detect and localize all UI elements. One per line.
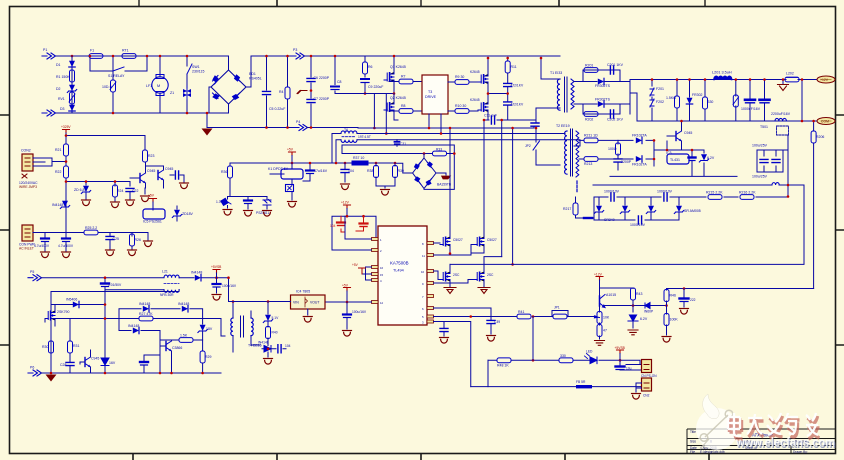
inductor L21 choke (105, 270, 179, 305)
diode D2 (67, 85, 76, 93)
capacitor C25 (106, 236, 119, 249)
capacitor C27 (213, 278, 237, 293)
node J8 (265, 55, 268, 58)
transformer T1 main (550, 71, 574, 112)
wire aux line (41, 277, 229, 279)
svg-text:P5: P5 (30, 270, 34, 274)
transformer T2 aux (556, 124, 579, 177)
zener ZD22 (165, 206, 194, 222)
svg-text:T1 EI33: T1 EI33 (550, 71, 562, 75)
node J11 (364, 92, 367, 95)
svg-text:100K: 100K (670, 318, 679, 322)
resistor R37 solid (352, 156, 368, 165)
+5VSB node cap (342, 284, 351, 304)
capacitor C213 series (611, 193, 614, 201)
svg-text:+5VSB: +5VSB (211, 265, 222, 269)
ground G19 (595, 341, 605, 346)
border zone tick top 4 (558, 0, 560, 6)
svg-text:472/1KV: 472/1KV (511, 103, 524, 107)
border zone tick top 1 (138, 0, 140, 6)
svg-text:L201 3.5uH: L201 3.5uH (712, 71, 732, 75)
resistor R11 (505, 58, 517, 83)
capacitor C35 (341, 163, 354, 182)
wire relay bypass (90, 56, 147, 71)
thermistor RT1 (122, 49, 136, 59)
grounds row2 (41, 252, 50, 258)
svg-text:10D-9: 10D-9 (102, 85, 112, 89)
diode D201 (598, 78, 604, 84)
capacitor C24 pol (58, 239, 74, 252)
svg-text:DRIVE: DRIVE (425, 95, 437, 99)
wire bottom row1 (488, 360, 641, 364)
capacitor C6 upper (307, 56, 330, 128)
wire bridge left leg (209, 87, 229, 113)
svg-text:R7: R7 (401, 75, 406, 79)
svg-text:R48 1K: R48 1K (497, 364, 509, 368)
ground G5 G6 G7 G8 (82, 200, 91, 206)
diode D22 (195, 275, 201, 281)
capacitor C22 (126, 188, 138, 199)
svg-text:C11 1uF: C11 1uF (484, 114, 497, 118)
svg-text:NFB 30R: NFB 30R (160, 293, 174, 297)
svg-text:C945: C945 (684, 131, 692, 135)
wire DC return rail (207, 127, 294, 129)
svg-text:+5V: +5V (342, 284, 349, 288)
capacitor C8 bus (331, 56, 342, 94)
transistor Q21 (130, 162, 155, 188)
resistor R42 jumper (552, 306, 568, 319)
svg-text:F1: F1 (90, 49, 94, 53)
svg-text:IN4148: IN4148 (52, 203, 63, 207)
wire ret rail lower (630, 93, 817, 121)
svg-text:R46: R46 (670, 294, 676, 298)
mosfet Q5 (440, 264, 460, 287)
IC pin3 wire (434, 322, 471, 387)
diode D34 (644, 303, 667, 314)
ground G17 (478, 288, 490, 294)
power +12A (341, 201, 351, 217)
resistor R1 (70, 70, 75, 82)
svg-text:10K: 10K (603, 316, 610, 320)
svg-text:FR302TS: FR302TS (595, 98, 611, 102)
transformer T6 drive (341, 128, 371, 142)
svg-text:+12V: +12V (341, 201, 350, 205)
svg-text:K1 DPDT-5V: K1 DPDT-5V (268, 167, 289, 171)
svg-text:Q2 K2645: Q2 K2645 (390, 96, 406, 100)
resistor R38 (367, 163, 395, 188)
svg-text:R36: R36 (221, 170, 227, 174)
wire CON3 row (33, 233, 148, 241)
wire standby top (66, 133, 145, 232)
IC pin10 wire (434, 271, 441, 280)
svg-text:1.5KΩ: 1.5KΩ (666, 96, 676, 100)
capacitor C33 pol (303, 163, 328, 181)
svg-text:2200P: 2200P (621, 160, 632, 164)
svg-text:R10 30: R10 30 (455, 104, 466, 108)
resistor R22 (64, 166, 69, 178)
wire Q6 collector row (600, 288, 646, 306)
capacitor C214 series (664, 193, 667, 201)
svg-text:IC3: IC3 (666, 151, 672, 155)
svg-text:CN2: CN2 (643, 394, 650, 398)
svg-text:SR AM005: SR AM005 (684, 209, 701, 213)
svg-text:RT1: RT1 (122, 49, 129, 53)
watermark logo circle (696, 394, 738, 450)
svg-text:R29: R29 (205, 355, 211, 359)
svg-text:6.2V: 6.2V (640, 317, 648, 321)
resistor R202 snub (584, 112, 598, 117)
resistor R8 gate (389, 104, 422, 113)
svg-text:222: 222 (690, 298, 696, 302)
diode D25 (182, 306, 188, 312)
IC pin5 wire long row (434, 316, 595, 318)
wire bottom rail (41, 372, 221, 374)
svg-text:C6 2200P: C6 2200P (314, 76, 330, 80)
node J3 (146, 55, 149, 58)
CM choke T501 (760, 118, 789, 135)
svg-text:Z1: Z1 (170, 91, 174, 95)
wire +12V rail (630, 79, 817, 81)
svg-text:D2: D2 (56, 87, 61, 91)
port +12V oval (817, 76, 835, 83)
inductor FB1 solid (576, 380, 592, 388)
resistor R43 (631, 288, 643, 312)
svg-text:KA7500B: KA7500B (390, 261, 409, 266)
svg-text:FR102TA: FR102TA (632, 163, 647, 167)
capacitor C203 (741, 80, 761, 122)
wire CM choke down (783, 135, 788, 185)
svg-text:COM: COM (821, 120, 829, 124)
cap bank frame C501 C502 (752, 144, 783, 179)
svg-text:+12V: +12V (820, 78, 829, 82)
svg-text:+5V: +5V (287, 148, 294, 152)
svg-text:R41: R41 (518, 310, 524, 314)
diode block D32 (286, 185, 294, 201)
resistor R212 (608, 140, 621, 158)
svg-text:Q1 K2645: Q1 K2645 (390, 65, 406, 69)
svg-text:R37 10: R37 10 (353, 156, 364, 160)
resistor R204 (703, 80, 714, 122)
svg-text:C201 1KV: C201 1KV (607, 63, 624, 67)
IC left pins (372, 238, 379, 304)
wire mid common rail (610, 141, 737, 176)
svg-text:R25 2.2: R25 2.2 (85, 226, 97, 230)
svg-text:IN5406: IN5406 (66, 298, 77, 302)
svg-text:2SK790: 2SK790 (57, 310, 70, 314)
resistor R39 (393, 163, 404, 186)
svg-text:47: 47 (603, 329, 607, 333)
switch S2 (187, 64, 192, 74)
wire fb2 y288 (667, 288, 814, 290)
mosfet Q2 (384, 94, 406, 121)
svg-text:R23: R23 (148, 154, 154, 158)
bridge rectifier BD1 (211, 70, 262, 104)
zener bank ZD1-ZD4 (594, 197, 700, 222)
border zone tick bottom row (133, 454, 709, 460)
watermark chinese text 电子发烧友 (drawn strokes) (728, 413, 820, 439)
border zone tick top 2 (276, 0, 278, 6)
svg-text:PS2561L: PS2561L (256, 211, 270, 215)
resistor R9 (455, 80, 469, 85)
node J7 (206, 112, 209, 115)
svg-text:16: 16 (380, 266, 384, 270)
svg-text:R38: R38 (367, 169, 373, 173)
wire block mid row (55, 318, 221, 320)
wire aux rail y185 (593, 184, 804, 186)
svg-text:RV1: RV1 (58, 97, 65, 101)
TVS Z1 (170, 86, 191, 100)
resistor R21 (64, 144, 69, 156)
svg-text:1000/10V: 1000/10V (657, 190, 673, 194)
diode D24 (143, 306, 149, 312)
svg-text:C202 1KV: C202 1KV (607, 118, 624, 122)
resistor R33 sense (433, 151, 447, 156)
svg-text:C9 220uF: C9 220uF (368, 85, 383, 89)
IC pin12 wire (325, 301, 372, 303)
capacitor C38 pol (343, 302, 367, 329)
svg-text:C945: C945 (147, 169, 155, 173)
capacitor C41 (680, 289, 696, 315)
capacitor C21 (158, 171, 184, 182)
IC pin2 wire (332, 249, 372, 251)
ground G3 output (778, 80, 789, 91)
svg-text:L21: L21 (162, 270, 168, 274)
svg-text:5.1V: 5.1V (272, 316, 280, 320)
resistor R215 (708, 195, 722, 200)
capacitor C36 red (330, 216, 345, 232)
node J1 (71, 55, 74, 58)
svg-text:IN4148: IN4148 (178, 302, 189, 306)
svg-text:R215 2.2K: R215 2.2K (706, 191, 723, 195)
port PB2 return (294, 125, 308, 131)
wire T1 primary top (541, 58, 560, 79)
border zone tick left/right (0, 115, 844, 345)
connector CN1 (641, 360, 657, 379)
transistor Q25 (80, 350, 99, 373)
diode D203 (686, 80, 702, 122)
capacitor C37 red (356, 216, 368, 231)
svg-text:A1015: A1015 (606, 293, 616, 297)
capacitor C29 (140, 355, 160, 373)
svg-text:BD1: BD1 (249, 72, 256, 76)
wire opto top rail (230, 162, 395, 164)
PFC block left rail (51, 292, 105, 374)
diode D26 (133, 327, 139, 333)
ground G22 (436, 173, 451, 179)
wire T1 sec top rail (574, 70, 630, 82)
svg-text:16V: 16V (109, 361, 116, 365)
wire bridge out to bus (246, 56, 291, 87)
svg-text:P1: P1 (43, 48, 47, 52)
capacitor C40 (440, 322, 449, 344)
power +5VSB2 (148, 194, 157, 211)
port P5 (28, 270, 42, 281)
long vertical T3 drops (428, 127, 431, 130)
wire drain riser x501 (501, 120, 503, 257)
svg-text:1000/10V: 1000/10V (604, 190, 620, 194)
svg-text:VIN: VIN (293, 301, 299, 305)
connector CON3 (19, 225, 36, 251)
svg-text:SW1: SW1 (192, 65, 200, 69)
power +5VSB3 (615, 346, 626, 365)
svg-text:+5V: +5V (148, 194, 155, 198)
wire bus top rail (304, 55, 560, 57)
svg-text:100u/16V: 100u/16V (222, 284, 237, 288)
svg-text:P6: P6 (30, 366, 34, 370)
zener ZD21 (74, 186, 91, 199)
svg-text:VOUT: VOUT (310, 301, 319, 305)
ground G12 (341, 184, 350, 190)
svg-text:C3866: C3866 (172, 346, 182, 350)
wire top AC rail (56, 55, 229, 57)
resistor R206 (811, 121, 824, 289)
connector CON2 (19, 149, 38, 190)
svg-text:47u/16V: 47u/16V (314, 169, 328, 173)
capacitor C31 small (395, 140, 407, 147)
svg-text:R217: R217 (563, 207, 571, 211)
fuse F201 (650, 80, 664, 122)
wire fb bus y264 (450, 185, 804, 264)
resistor R47 (664, 306, 678, 336)
svg-text:R6: R6 (368, 65, 373, 69)
svg-text:100Ω: 100Ω (608, 147, 617, 151)
svg-text:1.5K: 1.5K (180, 334, 188, 338)
capacitor C28 (60, 362, 74, 373)
svg-text:+5VSB: +5VSB (615, 346, 626, 350)
wire opto feed (395, 163, 413, 173)
wire choke stub top (159, 56, 161, 113)
coil L203 (772, 183, 779, 185)
svg-text:R8: R8 (401, 104, 406, 108)
node J6 (186, 112, 189, 115)
border zone tick top 3 (420, 0, 422, 6)
svg-text:1000/10V: 1000/10V (630, 223, 646, 227)
switch S1 bypass contact (113, 67, 124, 71)
capacitor C23 pol (34, 239, 50, 252)
coil T2 aux dashes (576, 181, 578, 192)
resistor R217 (563, 197, 594, 220)
svg-text:R27 47K: R27 47K (139, 312, 153, 316)
transistor Q24 (160, 340, 182, 373)
resistor R36 (221, 163, 233, 197)
capacitor C26 series (101, 278, 122, 292)
svg-text:WIRE JMP3: WIRE JMP3 (19, 185, 37, 189)
svg-text:+325V: +325V (61, 125, 71, 129)
resistor R27 (139, 316, 153, 321)
capacitor C212 (689, 150, 696, 176)
port P6 (28, 366, 42, 377)
svg-text:C945: C945 (165, 167, 173, 171)
svg-text:CON2: CON2 (21, 149, 31, 153)
inductor L202 (785, 72, 799, 82)
svg-text:15: 15 (380, 273, 384, 277)
svg-text:10: 10 (421, 270, 425, 274)
title block (687, 429, 835, 454)
wire primary return drop (207, 113, 229, 128)
svg-text:JP2: JP2 (525, 144, 531, 148)
resistor R30 (42, 341, 54, 353)
port ACN (AC neutral input) (42, 110, 56, 116)
resistor R24 (113, 185, 124, 201)
svg-text:R33: R33 (436, 148, 442, 152)
IC pin9 wire jog (434, 280, 475, 284)
resistor R49 (559, 358, 573, 363)
wire vert join (801, 80, 803, 122)
wire T3 right pins (448, 82, 478, 111)
svg-text:6.2V: 6.2V (707, 156, 715, 160)
svg-text:AC INLET: AC INLET (19, 247, 34, 251)
svg-text:R201: R201 (585, 64, 593, 68)
bus E wire (342, 153, 454, 155)
IC right pins (427, 242, 434, 324)
resistor R31 (68, 319, 80, 363)
svg-text:LF1: LF1 (146, 84, 152, 88)
earth ground G10 (46, 375, 57, 382)
svg-text:C5027: C5027 (487, 238, 497, 242)
svg-text:R211 1Ω: R211 1Ω (584, 134, 598, 138)
wire bottom AC rail (56, 112, 229, 114)
7805 input wire (229, 278, 291, 302)
resistor R46 (664, 289, 676, 306)
capacitor C11 coupling (484, 114, 520, 125)
earth ground G1 (202, 129, 213, 136)
mosfet Q3 (440, 128, 463, 254)
mosfet Q4 (471, 120, 497, 253)
ground G13 (381, 190, 390, 196)
svg-text:104: 104 (285, 344, 291, 348)
grounds opto (223, 210, 232, 216)
svg-text:S1 RELAY: S1 RELAY (108, 74, 125, 78)
cap C216 (584, 217, 592, 219)
varistor RV1 (58, 92, 75, 104)
wire mid tap (488, 93, 508, 95)
svg-text:IC5 PS2561: IC5 PS2561 (143, 220, 162, 224)
svg-text:C8: C8 (337, 80, 342, 84)
svg-text:330: 330 (708, 100, 714, 104)
svg-text:100u/25V: 100u/25V (752, 175, 768, 179)
transistor Q6 (600, 288, 617, 308)
svg-text:R216 2.2K: R216 2.2K (739, 191, 756, 195)
bus A wire (358, 120, 536, 128)
resistor R201 snub (584, 68, 598, 73)
wire TVS column (186, 56, 188, 113)
power ref stub (352, 263, 366, 274)
bridge rectifier BD2 (413, 154, 452, 189)
svg-text:Title: Title (690, 430, 696, 434)
connector CN2 (642, 378, 652, 398)
svg-text:T3: T3 (428, 90, 432, 94)
svg-text:C22: C22 (132, 189, 138, 193)
port COM oval (817, 118, 835, 125)
IC pin8 wire to Q3 (434, 242, 441, 244)
svg-text:1000uF/16V: 1000uF/16V (741, 107, 761, 111)
resistor R23 (143, 150, 148, 162)
svg-text:IN4148: IN4148 (258, 341, 269, 345)
varistor RV2 (216, 198, 231, 208)
wire bus riser x512 (512, 128, 514, 264)
svg-text:100u/16V: 100u/16V (352, 310, 367, 314)
ground G11 (288, 202, 297, 208)
svg-text:+5V: +5V (352, 263, 359, 267)
IC pin11 wire jog (434, 245, 475, 256)
svg-text:ZD18V: ZD18V (182, 212, 194, 216)
svg-text:R43: R43 (636, 292, 642, 296)
switch SW2 (525, 128, 560, 165)
resistor R10 (455, 109, 469, 114)
inner loop row2 (119, 331, 203, 374)
svg-text:FR102TA: FR102TA (632, 134, 647, 138)
wire T6 left leads (332, 134, 341, 164)
